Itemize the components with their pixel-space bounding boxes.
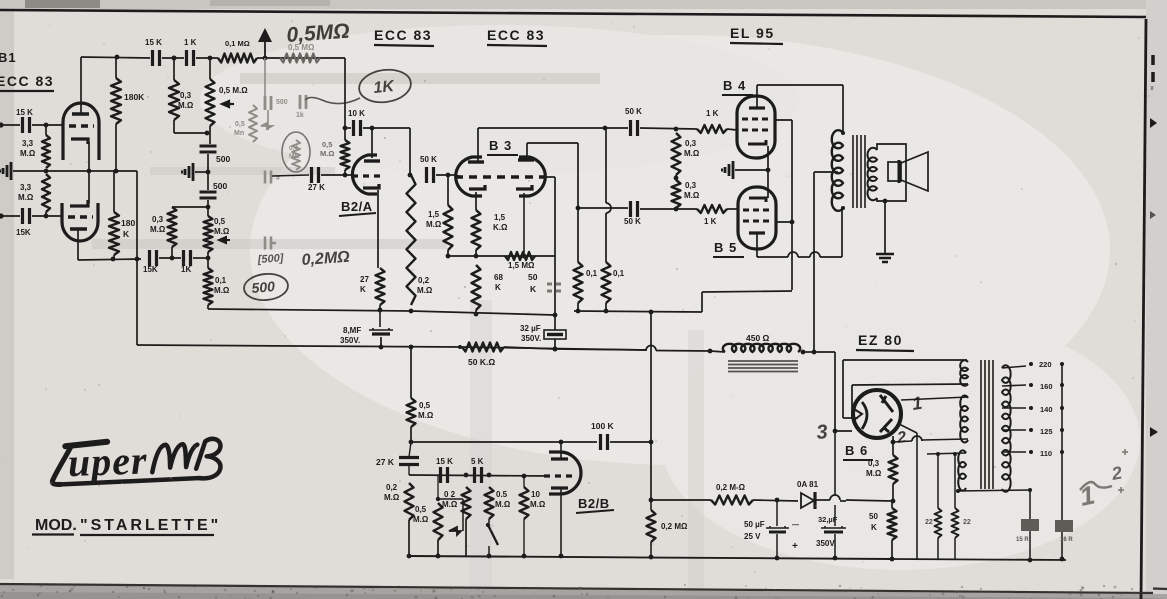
svg-text:27 K: 27 K [376,457,395,467]
resistor 50K bleeder [888,508,897,540]
resistor 0,5M screen [407,398,416,427]
svg-text:50 K.Ω: 50 K.Ω [468,357,495,367]
wire 10M ends [523,476,525,487]
smudged cap 500 u [265,96,271,110]
svg-text:27 K: 27 K [308,183,325,192]
triode B1a envelope [63,103,99,160]
svg-text:0,3: 0,3 [685,181,697,190]
svg-text:Mn: Mn [234,130,244,137]
resistor 05M tone3 [485,487,494,519]
svg-text:0,1: 0,1 [586,269,598,278]
capacitor 27K tone [399,458,419,465]
PT winding sec1 [960,360,968,385]
wire 50K b [891,501,893,508]
resistor 0,5M anode B2A [341,140,350,170]
wire B6 pin3 [833,429,838,434]
resistor 180K [115,57,117,78]
svg-text:0,5: 0,5 [322,140,332,149]
wire EZ pin right [901,397,968,400]
wire 1K to 0,1M [196,57,218,59]
wire grid1 junction down [45,125,47,135]
svg-text:50 K: 50 K [624,217,641,226]
svg-text:K: K [495,283,501,292]
svg-text:10: 10 [531,490,540,499]
svg-text:1,5 MΩ: 1,5 MΩ [508,261,535,270]
svg-text:—: — [792,522,799,529]
svg-text:0,5: 0,5 [235,121,245,128]
svg-text:10 K: 10 K [348,109,365,118]
input terminal 2 [0,213,4,218]
resistor 68K [472,265,481,310]
capacitor 500 second [200,192,217,198]
svg-text:22: 22 [963,519,971,526]
wire x651 to rail [650,442,652,500]
svg-text:180K: 180K [124,92,145,102]
bottom rail right [892,559,1066,560]
resistor 0,2M fb [647,510,656,542]
triode B2/A envelope [352,155,377,194]
wire 0,1b top [605,128,607,203]
svg-text:50 K: 50 K [420,155,437,164]
svg-text:EL 95: EL 95 [730,25,775,41]
handwritten 1K circled [357,67,413,106]
logo SuperNB [51,435,222,486]
svg-text:B2/B: B2/B [578,496,610,511]
svg-text:M.Ω: M.Ω [320,149,334,158]
wire lower row y258 [78,259,141,260]
handwritten plus marks [1118,449,1128,493]
svg-text:1K: 1K [181,265,191,274]
capacitor 50K lower [631,201,638,217]
svg-text:0,5 M.Ω: 0,5 M.Ω [219,86,248,95]
capacitor 15K coupling [153,50,160,66]
smudged cap 1k [300,95,306,109]
svg-text:M.Ω: M.Ω [495,500,511,509]
speaker ground wire [883,199,888,204]
svg-text:125: 125 [1040,427,1053,436]
resistor 27K cathode [376,268,385,305]
svg-text:B 3: B 3 [489,138,512,153]
wire 0,1M to right [257,57,345,59]
svg-text:500: 500 [251,278,276,296]
wire B3 grid left [455,175,460,176]
ground EL95 [725,161,733,179]
right margin mark 1 [1151,55,1155,82]
svg-text:50 µF: 50 µF [744,520,765,529]
svg-text:22: 22 [925,519,933,526]
resistor 0,2M tone2 [462,487,471,519]
wire 27K bottom [379,305,381,310]
svg-text:K: K [360,285,366,294]
wire 1,5M top [447,175,449,205]
speaker cone [901,152,928,191]
svg-text:M.Ω: M.Ω [866,469,882,478]
wire B2B anode [560,442,562,459]
resistor 180K second [113,171,115,212]
svg-text:ECC 83: ECC 83 [374,27,432,43]
wire 0,3M bottom row [173,120,175,133]
capacitor 15K input2 [23,208,30,224]
svg-text:0,2: 0,2 [386,483,398,492]
smudged cap mid [265,171,271,184]
handwritten arrow from 1K [305,98,360,104]
svg-text:0,2 M-Ω: 0,2 M-Ω [716,483,746,492]
wire 0,1a top [577,208,579,262]
resistor 1,5M grid B3 [444,205,453,250]
wire y442 rail [411,441,597,443]
svg-text:220: 220 [1039,360,1052,369]
wire y500 row [651,499,711,501]
svg-text:K.Ω: K.Ω [493,223,508,232]
wire 8MF [379,310,381,327]
wire x410 down [409,128,411,175]
wire cathodes [735,169,768,171]
svg-text:M.Ω: M.Ω [20,149,36,158]
svg-text:5 K: 5 K [471,457,484,466]
pot 0,5M wiper [222,101,234,107]
wire 0,3 mid [675,175,677,180]
capacitor 32uF2 [821,526,846,528]
wire B1a cathode [88,142,90,171]
resistor 0,3M b [672,180,681,208]
wire 0,3 bottom [892,484,894,501]
wire x651 down [650,312,652,442]
svg-text:0,3: 0,3 [180,91,192,100]
svg-text:B 6: B 6 [845,443,868,458]
wire 0,5M screen [410,347,412,398]
capacitor 8MF [369,328,393,330]
pot 0,5M second wiper [219,237,230,243]
svg-text:uper: uper [67,437,148,485]
svg-text:M.Ω: M.Ω [384,493,400,502]
svg-text:B 4: B 4 [723,78,746,93]
right margin mark 2 [1150,118,1157,128]
wire x345 down [344,58,346,140]
table edge line [0,584,1167,593]
wire y501 row [846,500,893,501]
wire B1b cathode up [88,171,90,203]
PT winding sec2 [960,396,968,443]
PT tap 125 [1002,429,1026,431]
wire left B+ drop [136,171,138,259]
wire 1K to B4 [727,129,737,130]
capacitor 32uF first [544,330,566,339]
diode OA81 [801,493,814,508]
wire 345 up to cap [345,127,351,129]
svg-text:EZ 80: EZ 80 [858,332,903,348]
svg-text:1 K: 1 K [706,109,719,118]
svg-text:MΩ: MΩ [289,153,300,160]
wire y208 rail [578,207,628,209]
svg-text:350V.: 350V. [816,539,836,548]
triode B2/B envelope [549,452,581,494]
svg-text:25 V: 25 V [744,532,761,541]
svg-text:0.5: 0.5 [496,490,508,499]
wire 22 bottoms [937,538,939,560]
svg-text:M.Ω: M.Ω [214,227,230,236]
resistor 0,3M B6 [889,455,898,484]
wire pot1 bottom [209,126,211,144]
wire x555 down [554,256,556,330]
svg-text:15K: 15K [16,228,31,237]
resistor 1,5M feedback [505,252,535,260]
svg-text:[500]: [500] [256,252,284,266]
svg-text:"STARLETTE": "STARLETTE" [80,517,221,534]
wire cap2 to grid2 [32,215,62,217]
wire cap10K right [363,127,410,129]
resistor 0,2M tone1 [405,483,414,520]
svg-text:K: K [871,523,877,532]
wire 32uF2 [834,505,836,526]
wire top rail y57 [81,57,150,58]
svg-text:0,2: 0,2 [418,276,430,285]
wire EZ top [843,359,967,361]
svg-text:3,3: 3,3 [22,139,34,148]
wire 0,1 bottoms [577,303,579,311]
ecap right2 [1055,520,1073,532]
capacitor 5K tone [475,467,482,483]
wire 50K2 to 1K2 [640,208,697,210]
PT primary coil [1002,365,1011,491]
svg-text:1k: 1k [296,112,304,119]
svg-text:0A 81: 0A 81 [797,480,819,489]
resistor 0,2M [407,175,416,305]
bottom rail mid [409,556,892,559]
triode B3a envelope [456,157,482,196]
svg-text:0,2MΩ: 0,2MΩ [301,249,351,269]
svg-text:0,5: 0,5 [415,505,427,514]
wire EZ cathode out [893,441,912,442]
speaker driver [888,162,901,181]
wire ground row B1 [13,170,137,172]
wire screen stub B4 [775,119,792,121]
wire row y255 [447,250,449,256]
svg-text:15 R: 15 R [1016,537,1029,543]
svg-text:8,MF: 8,MF [343,326,361,335]
resistor 50K B+ [462,343,504,352]
sheet right border [1141,19,1146,599]
pot vol wiper [438,498,463,500]
resistor 0,1 first [574,262,583,303]
svg-text:M.Ω: M.Ω [418,411,434,420]
hop y351 x651 [460,347,646,350]
svg-text:32 µF: 32 µF [520,324,541,333]
wire y475 row [409,475,547,476]
speaker box [877,144,906,201]
wire B3b cathode [523,193,525,256]
pentode B4 envelope [737,96,775,158]
svg-text:1,5: 1,5 [494,213,506,222]
switch [488,519,490,523]
svg-text:160: 160 [1040,382,1053,391]
pot 0,5M second [204,216,213,252]
wire filament top [927,453,966,454]
transformer secondary coil [867,148,877,200]
transformer core [853,135,865,208]
wire 500a to ground row [207,154,209,190]
ground speaker [876,254,894,262]
wire 50uF [776,500,778,526]
wire 0,3M top [173,58,175,80]
capacitor 15K lower [150,250,157,266]
wire 1K to chain [193,257,208,259]
wire 0,3M2 bottom [171,247,173,259]
capacitor 50K upper [631,120,638,136]
svg-text:1K: 1K [373,78,397,97]
svg-text:110: 110 [1040,449,1052,458]
wire windings down b [954,455,956,508]
svg-text:+: + [792,541,798,552]
svg-text:140: 140 [1040,405,1053,414]
capacitor 50K coupling1 [427,167,434,183]
svg-text:M.Ω: M.Ω [684,191,700,200]
resistor 0,1 second [602,262,611,303]
resistor 3,3M upper [42,135,50,168]
svg-text:450 Ω: 450 Ω [746,333,770,343]
PT tap 220 [1002,366,1026,368]
svg-text:M.Ω: M.Ω [178,101,194,110]
wire ecap1 [1029,490,1031,519]
wire 15K-1K lower [159,257,181,259]
svg-text:K: K [123,229,130,239]
svg-text:3,3: 3,3 [20,183,32,192]
resistor 0,3M first [169,80,179,120]
wire 50K to 1K [640,128,697,129]
resistor 0,3M a [672,133,681,175]
wire input2 [1,215,20,217]
svg-text:500: 500 [213,181,227,191]
wire 1K2 to B5 [727,208,739,210]
triode B3b envelope [519,157,545,196]
wire 27K to grid [321,174,352,176]
capacitor 27K grid [312,167,319,183]
svg-text:M.Ω: M.Ω [150,225,166,234]
input terminal 1 [0,122,4,127]
svg-text:500: 500 [276,99,288,106]
svg-text:0,3: 0,3 [685,139,697,148]
capacitor 50uF [766,526,789,528]
resistor 0,1M top [218,54,257,63]
PT tap 110 [1002,451,1026,453]
svg-text:ECC 83: ECC 83 [0,73,54,89]
ground mid chain [185,163,193,181]
wire choke right [803,351,814,353]
resistor 0,2M ps [711,496,753,505]
wire ps mid [753,500,798,501]
svg-text:0,5 MΩ: 0,5 MΩ [288,43,315,52]
wire 1,5K bottom [475,250,477,256]
capacitor 10K [354,120,361,136]
wire x917 down [899,424,917,433]
wire 0,3M2 row [172,206,208,208]
svg-text:15 K: 15 K [436,457,453,466]
wire x835 upper [834,431,836,495]
PT tap 160 [1002,385,1026,386]
wire 27K left [272,175,309,176]
svg-text:MOD.: MOD. [35,517,77,534]
resistor 1,5K cathode [472,210,481,250]
svg-text:0,1 MΩ: 0,1 MΩ [225,39,250,48]
svg-text:1 K: 1 K [184,38,197,47]
svg-text:1 K: 1 K [704,217,717,226]
wire diode right [816,499,830,501]
PT winding sec3 [958,450,966,490]
svg-text:0,5: 0,5 [419,401,431,410]
svg-text:50 K: 50 K [625,107,642,116]
smudged circle 0,4M [282,132,310,172]
wire 27K tone [409,442,411,457]
svg-text:M.Ω: M.Ω [18,193,34,202]
wire EZ plate2 [852,384,968,385]
wire bottom row y308 [207,305,209,309]
wire B1a anode up [80,57,82,114]
svg-text:M.Ω: M.Ω [530,500,546,509]
svg-text:500: 500 [216,154,230,164]
capacitor 500 first [200,146,217,152]
resistor 1K grid B4 [697,125,727,133]
capacitor 15K tone [441,467,448,483]
svg-text:350V.: 350V. [521,334,541,343]
capacitor 1K coupling [187,50,194,66]
grid dashes B3 [455,175,546,178]
wire 50K right [436,174,455,176]
pot 0,5M vol [436,497,440,501]
svg-text:15 K: 15 K [145,38,162,47]
wire B3a cathode down [475,192,477,210]
wire chain down [207,252,209,268]
wire B6 bottom [891,440,896,445]
handwritten 500 circled [243,272,289,302]
smudged pot 0,5M [249,105,257,142]
svg-text:50: 50 [528,272,538,282]
svg-text:M.Ω: M.Ω [442,500,458,509]
svg-text:B2/A: B2/A [341,199,373,214]
wire 50K B+ ends [504,347,555,349]
svg-text:0,1: 0,1 [613,269,625,278]
svg-text:16 R: 16 R [1060,537,1073,543]
wire B1b anode down [77,230,79,260]
wire y314 [411,311,555,315]
svg-text:180: 180 [121,218,135,228]
svg-text:0 2: 0 2 [444,490,456,499]
svg-text:0,3: 0,3 [868,459,880,468]
svg-text:1,5: 1,5 [428,210,440,219]
capacitor 15K input1 [23,117,30,133]
svg-text:M.Ω: M.Ω [684,149,700,158]
svg-text:0,5: 0,5 [214,217,226,226]
pentode B5 envelope [738,187,776,249]
ecap right1 [1021,519,1039,531]
pot 0,5M first [206,79,215,126]
svg-text:B 5: B 5 [714,240,737,255]
ground B1 [3,162,11,180]
wire windings down a [937,455,939,508]
wire 500b down [207,200,209,216]
wire y350 right [555,349,647,350]
svg-text:68: 68 [494,273,503,282]
wire 0,5M to junction [344,170,346,175]
transformer primary coil [832,130,843,211]
wire B2A cathode down [377,190,379,268]
smudged res top [280,54,320,63]
svg-text:0,2 MΩ: 0,2 MΩ [661,522,688,531]
wire CT [814,171,838,173]
wire screen stub B5 [775,221,792,223]
right margin mark 3 [1150,427,1158,437]
PT tap 140 [1002,407,1026,409]
wire B3a anode up [477,128,479,162]
wire x702 up [701,292,703,312]
